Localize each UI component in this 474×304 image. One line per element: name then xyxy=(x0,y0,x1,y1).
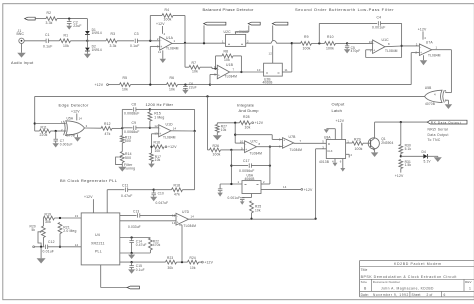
svg-text:+12V: +12V xyxy=(168,145,177,149)
capacitor C12 0.01uF xyxy=(35,246,45,248)
node C12 ground branch xyxy=(40,246,42,248)
svg-text:0.1uF: 0.1uF xyxy=(130,44,139,48)
node C17 right xyxy=(269,164,271,166)
svg-text:-: - xyxy=(245,142,246,146)
capacitor C11 0.47uF xyxy=(125,188,127,192)
svg-text:+12V: +12V xyxy=(395,174,404,178)
svg-text:+12V: +12V xyxy=(336,119,345,123)
wire to U7B noninverting input xyxy=(235,134,272,136)
svg-text:10k: 10k xyxy=(155,158,161,162)
svg-text:+12V: +12V xyxy=(84,195,93,199)
net flag phase 1 xyxy=(204,22,226,25)
resistor R27 10k xyxy=(216,123,218,125)
ground at bypass capacitor xyxy=(217,193,222,197)
svg-text:John A. Magliacane, KD2BD: John A. Magliacane, KD2BD xyxy=(381,286,434,290)
svg-text:4: 4 xyxy=(434,92,436,96)
svg-text:0.001uF: 0.001uF xyxy=(228,196,241,200)
svg-text:470k: 470k xyxy=(153,243,161,247)
svg-text:5: 5 xyxy=(279,137,281,141)
feedback wire with resistor R4 100k xyxy=(149,16,151,41)
wire U7D output clock line xyxy=(189,218,317,220)
wire U1A output down to R7 xyxy=(184,43,186,67)
svg-text:6: 6 xyxy=(340,159,342,163)
net flag phase 3 xyxy=(272,22,288,25)
ground at C2 xyxy=(66,26,72,30)
svg-text:0.0056uF: 0.0056uF xyxy=(239,169,255,173)
svg-text:10: 10 xyxy=(257,68,261,72)
node C10 tap xyxy=(153,189,155,191)
svg-text:1: 1 xyxy=(222,39,224,43)
svg-text:C4: C4 xyxy=(377,16,382,20)
svg-text:4066B: 4066B xyxy=(245,177,255,181)
svg-text:220k: 220k xyxy=(40,133,48,137)
svg-text:U5B: U5B xyxy=(425,86,432,90)
svg-text:R4: R4 xyxy=(165,8,170,12)
flip-flop U8A 4013B xyxy=(326,140,345,159)
svg-text:0.01uF: 0.01uF xyxy=(43,249,54,253)
node comparator divider xyxy=(181,261,183,263)
wire U7A output down to U5B xyxy=(432,49,452,51)
svg-text:22uF: 22uF xyxy=(73,24,81,28)
svg-text:-: - xyxy=(420,45,421,49)
resistor R18 47k xyxy=(154,189,172,191)
svg-text:R10: R10 xyxy=(327,35,334,39)
svg-text:13: 13 xyxy=(172,221,176,225)
capacitor C7 0.001uF xyxy=(55,131,57,139)
svg-text:C12: C12 xyxy=(48,240,55,244)
wire U6A right pin xyxy=(261,183,270,185)
wire U4 bottom pin to flag xyxy=(100,265,102,288)
svg-text:10k: 10k xyxy=(192,70,198,74)
resistor R11 220k xyxy=(35,130,40,132)
svg-text:R19: R19 xyxy=(45,212,52,216)
wire timing network to U4 xyxy=(60,246,81,248)
potentiometer R22 5k xyxy=(42,218,44,226)
ground at U1A pin 11 xyxy=(162,50,164,58)
node edge detector upper input xyxy=(34,122,36,124)
wire R26 to U7C xyxy=(231,149,244,151)
svg-text:U8A: U8A xyxy=(324,135,331,139)
svg-text:-: - xyxy=(218,67,219,71)
svg-text:+: + xyxy=(159,132,161,136)
svg-text:1: 1 xyxy=(436,45,438,49)
svg-text:9: 9 xyxy=(241,146,243,150)
svg-text:10k: 10k xyxy=(169,88,175,92)
analog switch U2C 4066B xyxy=(226,34,246,46)
svg-text:0.47uF: 0.47uF xyxy=(136,243,147,247)
wire data line down to R26 xyxy=(207,96,209,149)
resistor R20 5.1k xyxy=(400,122,402,144)
resistor R5 10k xyxy=(120,83,131,87)
svg-text:CLK: CLK xyxy=(327,149,333,153)
resistor R24 470k xyxy=(149,238,153,250)
svg-text:R7: R7 xyxy=(192,61,197,65)
svg-text:14: 14 xyxy=(79,117,83,121)
svg-text:10k: 10k xyxy=(245,126,251,130)
svg-text:5: 5 xyxy=(214,72,216,76)
node C17 left xyxy=(230,164,232,166)
svg-text:Edge Detector: Edge Detector xyxy=(59,103,89,108)
ground at R27 xyxy=(213,135,222,140)
svg-text:0.1uF: 0.1uF xyxy=(43,45,52,49)
svg-text:Audio Input: Audio Input xyxy=(11,61,34,65)
svg-text:Latch: Latch xyxy=(332,108,343,113)
wire U1C output to U7A xyxy=(385,45,402,48)
svg-text:TL084M: TL084M xyxy=(184,224,197,228)
svg-text:5.1V: 5.1V xyxy=(424,160,432,164)
wire U7C input down to C17 xyxy=(230,150,232,184)
svg-text:14: 14 xyxy=(283,185,287,189)
capacitor C1 0.1uF xyxy=(45,39,47,43)
svg-text:R28: R28 xyxy=(243,115,250,119)
wire U1D output xyxy=(171,130,195,132)
svg-text:+: + xyxy=(283,139,285,143)
resistor R2 3.3k xyxy=(46,17,57,21)
svg-text:XR2211: XR2211 xyxy=(91,241,105,245)
ground at J1 xyxy=(21,44,23,53)
ground at C5 xyxy=(344,49,351,53)
svg-text:+12V: +12V xyxy=(71,109,80,113)
transistor Q1 2N3904 xyxy=(368,138,379,149)
resistor R21 1.5k to +12V xyxy=(399,160,403,169)
wire U1D noninverting to divider xyxy=(152,133,159,135)
svg-text:+: + xyxy=(218,74,220,78)
svg-text:10k: 10k xyxy=(221,128,227,132)
svg-text:4070B: 4070B xyxy=(425,102,435,106)
svg-text:R9: R9 xyxy=(304,35,309,39)
resistor R1 10k xyxy=(60,39,71,43)
svg-text:C1: C1 xyxy=(45,33,50,37)
svg-text:-: - xyxy=(160,38,161,42)
svg-text:47k: 47k xyxy=(174,193,180,197)
resistor R26 100k xyxy=(208,149,210,151)
svg-text:11: 11 xyxy=(158,50,161,54)
svg-text:TL084M: TL084M xyxy=(166,46,179,50)
ground at C10 xyxy=(150,197,157,201)
capacitor C8 0.0068uF xyxy=(122,108,132,110)
node bias at U1B xyxy=(209,83,211,85)
resistor R19 30k xyxy=(42,217,44,219)
svg-text:500: 500 xyxy=(125,139,131,143)
ground at R14 xyxy=(118,167,126,172)
svg-text:BNC: BNC xyxy=(17,32,25,36)
svg-text:U1B: U1B xyxy=(226,63,234,67)
svg-text:4066B: 4066B xyxy=(263,81,273,85)
svg-text:0.047uF: 0.047uF xyxy=(156,201,169,205)
svg-text:3: 3 xyxy=(86,124,88,128)
clock wire from PLL comparator to U8A xyxy=(315,149,317,219)
svg-text:470pF: 470pF xyxy=(351,49,361,53)
svg-text:10k: 10k xyxy=(224,58,230,62)
svg-text:14: 14 xyxy=(191,215,195,219)
svg-text:1.5k: 1.5k xyxy=(405,163,412,167)
svg-text:C11: C11 xyxy=(122,184,128,188)
svg-text:10: 10 xyxy=(240,140,244,144)
title block frame xyxy=(360,260,474,262)
svg-text:TL084M: TL084M xyxy=(250,152,263,156)
svg-text:BPSK Demodulation & Clock Extr: BPSK Demodulation & Clock Extraction Cir… xyxy=(361,275,457,279)
wire divider up to U7D inverting input xyxy=(181,225,183,262)
svg-text:C9: C9 xyxy=(132,121,137,125)
svg-text:14: 14 xyxy=(173,127,177,131)
wire flag to R2 xyxy=(35,18,46,20)
wire U7B output to flip-flop D input xyxy=(293,142,295,144)
wire filter input vertical xyxy=(121,109,123,135)
svg-text:47k: 47k xyxy=(105,132,111,136)
wire R18 up to U1D output xyxy=(194,131,196,190)
power tap circle xyxy=(33,246,35,248)
ground at U7A pin 11 xyxy=(423,55,425,60)
U1C feedback loop xyxy=(366,49,373,51)
wire U7C output to U7B xyxy=(257,146,270,148)
wire hop over flag3 vertical xyxy=(271,41,276,44)
wire R10 to U1C xyxy=(347,42,373,44)
svg-text:1 Meg: 1 Meg xyxy=(154,115,164,119)
capacitor C5 470pF xyxy=(346,43,348,45)
node C7 tap xyxy=(55,130,57,132)
svg-text:1200 Hz Filter: 1200 Hz Filter xyxy=(146,102,174,107)
svg-text:U2C: U2C xyxy=(224,30,232,34)
net flag RX Data Output xyxy=(427,120,467,124)
svg-text:TL084M: TL084M xyxy=(163,136,176,140)
svg-text:Document Number: Document Number xyxy=(373,280,400,284)
node phase detector output xyxy=(291,42,293,44)
svg-text:0.001uF: 0.001uF xyxy=(60,143,73,147)
node zener junction xyxy=(400,155,402,157)
net flag audio input (top left) xyxy=(25,17,36,20)
ground at C15 xyxy=(128,269,135,273)
wire to R3 xyxy=(87,40,106,42)
svg-text:-: - xyxy=(373,42,374,46)
analog switch U2B 4066B xyxy=(264,63,283,76)
resistor R13 500 xyxy=(121,134,123,136)
capacitor C4 0.001uF feedback xyxy=(318,23,320,43)
wire U8A Q output xyxy=(346,142,352,144)
bypass capacitor at U6A left xyxy=(219,184,221,189)
op-amp U1D TL084M xyxy=(159,125,171,137)
node C4 tap xyxy=(318,42,320,44)
svg-text:2: 2 xyxy=(351,153,353,157)
ground at U8A pin 6 xyxy=(342,159,344,169)
svg-text:R6: R6 xyxy=(170,76,175,80)
svg-text:2N3904: 2N3904 xyxy=(381,141,393,145)
svg-text:Title: Title xyxy=(361,268,368,272)
ground at C6 xyxy=(182,90,189,94)
wire C9 node to U1D input xyxy=(150,127,159,129)
svg-text:R8: R8 xyxy=(224,49,229,53)
svg-text:C10: C10 xyxy=(158,191,164,195)
op-amp U7B TL084M xyxy=(283,138,294,149)
svg-text:12: 12 xyxy=(172,213,176,217)
svg-text:TL084M: TL084M xyxy=(385,49,398,53)
ground at U8A set pin xyxy=(334,129,336,140)
svg-text:100k: 100k xyxy=(213,152,221,156)
svg-text:U4: U4 xyxy=(95,233,100,237)
op-amp U1A TL084M xyxy=(160,37,172,51)
node C2 tap xyxy=(68,17,70,19)
svg-text:10k: 10k xyxy=(155,149,161,153)
node U1D output xyxy=(193,130,195,132)
potentiometer R14 500 Filter Tuning xyxy=(120,152,124,163)
ground at U8A pin 4 xyxy=(334,159,336,163)
svg-text:1N914: 1N914 xyxy=(92,48,102,52)
wire bias rail xyxy=(108,84,119,86)
svg-text:Output: Output xyxy=(332,102,346,107)
svg-text:U7A: U7A xyxy=(426,41,434,45)
svg-text:NRZI Serial: NRZI Serial xyxy=(428,128,449,132)
node C8 right / feedback xyxy=(149,108,151,110)
wire U8A pin2 stub xyxy=(346,153,350,155)
resistor R16 10k to +12V xyxy=(152,146,154,148)
node flag1 tap xyxy=(203,42,205,44)
svg-text:+: + xyxy=(177,220,179,224)
resistor R31 10k to +12V xyxy=(188,260,199,264)
svg-text:RX Data Output: RX Data Output xyxy=(431,120,462,124)
svg-text:+12V: +12V xyxy=(418,28,427,32)
wire U4 pin to C14 R24 network xyxy=(120,237,151,239)
node data line to integrate branch xyxy=(206,95,208,97)
wire data line down to edge detector xyxy=(34,96,36,131)
svg-text:-: - xyxy=(159,126,160,130)
node timing network junction xyxy=(59,246,61,248)
svg-text:10k: 10k xyxy=(190,266,196,270)
resistor R9 100k xyxy=(292,42,301,44)
svg-text:R24: R24 xyxy=(190,256,196,260)
svg-text:6: 6 xyxy=(444,293,446,297)
svg-text:6: 6 xyxy=(214,65,216,69)
resistor R17 10k xyxy=(150,153,154,162)
capacitor C18 0.001uF at U6A control xyxy=(251,194,253,198)
resistor R6 10k xyxy=(167,83,178,87)
node U1A output xyxy=(184,42,186,44)
svg-text:C8: C8 xyxy=(132,102,137,106)
capacitor C14 0.47uF xyxy=(131,238,133,241)
connector J1 BNC xyxy=(19,38,24,43)
svg-text:C13: C13 xyxy=(133,209,139,213)
svg-text:U5A: U5A xyxy=(67,116,74,120)
svg-text:TL084M: TL084M xyxy=(225,75,238,79)
capacitor C2 22uF xyxy=(68,19,70,22)
wire Q1 collector to output node xyxy=(375,121,428,123)
svg-text:R1: R1 xyxy=(64,33,69,37)
node RX data output xyxy=(400,121,402,123)
resistor R28 10k to +12V xyxy=(240,121,251,125)
node clock line junction xyxy=(250,218,252,220)
svg-text:2: 2 xyxy=(263,180,265,184)
wire U5A output xyxy=(84,127,101,129)
svg-text:And Dump: And Dump xyxy=(239,108,260,113)
svg-text:KD2BD Packet Modem: KD2BD Packet Modem xyxy=(394,262,442,266)
diode D2 1N914 xyxy=(86,41,88,48)
svg-text:TL084M: TL084M xyxy=(428,53,441,57)
svg-text:10k: 10k xyxy=(122,88,128,92)
node U7C output xyxy=(269,146,271,148)
op-amp U1B TL084M xyxy=(217,65,229,79)
node C6 tap xyxy=(184,83,186,85)
svg-text:+: + xyxy=(160,45,162,49)
wire U4 second comparator pin xyxy=(120,220,176,222)
svg-text:2 of: 2 of xyxy=(427,293,433,297)
svg-text:U7D: U7D xyxy=(182,210,190,214)
wire U1A output to phase detector xyxy=(172,42,185,44)
svg-text:4070B: 4070B xyxy=(65,134,75,138)
node U7C feed to U7B xyxy=(234,134,236,136)
svg-text:8: 8 xyxy=(259,142,261,146)
wire bias up to U1B noninverting input xyxy=(209,75,211,85)
svg-text:R12: R12 xyxy=(104,122,111,126)
capacitor C13 in series xyxy=(137,213,139,217)
node R8 feedback tap xyxy=(214,67,216,69)
svg-text:November 9, 1992: November 9, 1992 xyxy=(373,293,409,297)
wire bias node xyxy=(217,122,239,124)
wire R28 node down to U7C inverting input xyxy=(234,123,236,143)
svg-text:8: 8 xyxy=(388,42,390,46)
svg-text:Data Output: Data Output xyxy=(428,133,449,137)
capacitor C3 0.1uF xyxy=(134,39,136,43)
wire U1A noninverting input bias xyxy=(150,45,159,47)
wire J1 to C1 xyxy=(24,40,46,42)
svg-text:U7C: U7C xyxy=(251,139,259,143)
op-amp U7A TL084M xyxy=(419,44,431,56)
ground at C14 xyxy=(130,252,132,254)
svg-text:3: 3 xyxy=(416,42,418,46)
svg-text:C3: C3 xyxy=(134,32,139,36)
wire R7 to U1B inverting input xyxy=(211,67,213,68)
svg-text:0.0068uF: 0.0068uF xyxy=(124,130,140,134)
svg-text:30k: 30k xyxy=(45,220,51,224)
svg-text:-: - xyxy=(177,215,178,219)
svg-text:Balanced Phase Detector: Balanced Phase Detector xyxy=(203,7,255,12)
node R28 junction xyxy=(234,122,236,124)
svg-text:R16: R16 xyxy=(154,140,161,144)
svg-text:-: - xyxy=(283,144,284,148)
svg-text:R29: R29 xyxy=(354,137,361,141)
capacitor C9 0.0068uF xyxy=(122,127,132,129)
svg-text:R3: R3 xyxy=(111,32,116,36)
svg-text:REV: REV xyxy=(465,280,472,284)
svg-text:2.0 Meg: 2.0 Meg xyxy=(63,229,76,233)
svg-text:10k: 10k xyxy=(63,44,69,48)
svg-text:500: 500 xyxy=(125,156,131,160)
wire U2B output up to low-pass filter input xyxy=(282,71,292,73)
svg-text:+12V: +12V xyxy=(204,261,213,265)
svg-text:5: 5 xyxy=(322,140,324,144)
svg-text:+: + xyxy=(373,48,375,52)
analog switch U6A 4066B xyxy=(242,181,261,194)
svg-text:100k: 100k xyxy=(355,147,363,151)
svg-text:+: + xyxy=(420,51,422,55)
capacitor C15 0.1uF xyxy=(131,262,133,265)
svg-text:7: 7 xyxy=(233,68,235,72)
op-amp U1C TL084M xyxy=(373,40,385,54)
node C9 right / U1D inverting xyxy=(149,127,151,129)
wire U6A supply to +12V xyxy=(261,188,301,190)
svg-text:14: 14 xyxy=(75,243,79,247)
resistor R15 1 Meg xyxy=(149,109,151,112)
svg-text:+12V: +12V xyxy=(95,83,104,87)
svg-text:0.47uF: 0.47uF xyxy=(121,194,132,198)
op-amp U7C TL084M xyxy=(245,141,257,153)
svg-text:D4: D4 xyxy=(422,150,426,154)
svg-text:1: 1 xyxy=(61,120,63,124)
wire U5B output long data line xyxy=(35,95,425,97)
svg-text:30k: 30k xyxy=(168,266,174,270)
ground at D4 xyxy=(437,155,439,158)
svg-text:10k: 10k xyxy=(255,208,261,212)
node diode junction xyxy=(86,40,88,42)
svg-text:R18: R18 xyxy=(174,184,181,188)
feedback wire C8 node to U1D output xyxy=(150,108,195,110)
